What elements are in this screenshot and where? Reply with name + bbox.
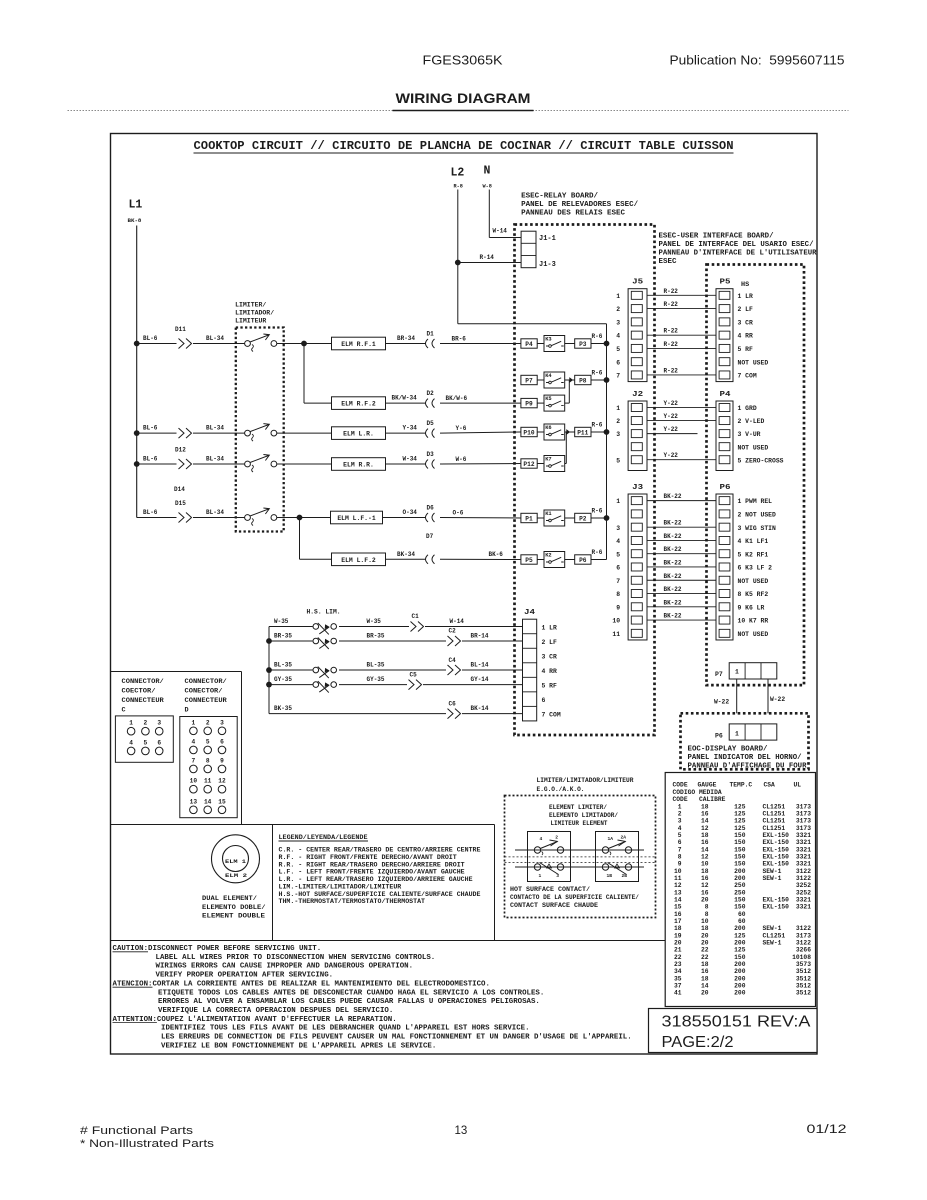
- svg-text:16: 16: [701, 889, 709, 896]
- svg-text:3173: 3173: [796, 825, 811, 832]
- svg-text:ELM R.R.: ELM R.R.: [343, 462, 374, 469]
- relay K7: [537, 463, 544, 465]
- svg-text:1B: 1B: [607, 873, 613, 879]
- svg-text:12: 12: [701, 825, 709, 832]
- svg-text:ATENCION:CORTAR LA CORRIENTE A: ATENCION:CORTAR LA CORRIENTE ANTES DE RE…: [113, 980, 490, 988]
- svg-text:LES ERREURS DE CONNECTION DE F: LES ERREURS DE CONNECTION DE FILS PEUVEN…: [161, 1034, 632, 1042]
- connector P8: [565, 379, 575, 381]
- svg-text:10 K7 RR: 10 K7 RR: [738, 618, 769, 625]
- svg-text:5 RF: 5 RF: [542, 682, 558, 689]
- svg-text:CL1251: CL1251: [763, 803, 786, 810]
- part number box: [649, 1009, 818, 1053]
- svg-text:BK-22: BK-22: [664, 493, 682, 500]
- svg-text:1A: 1A: [608, 836, 614, 842]
- svg-text:200: 200: [734, 940, 746, 947]
- svg-text:GY-14: GY-14: [471, 676, 489, 683]
- svg-text:318550151 REV:A: 318550151 REV:A: [662, 1014, 812, 1031]
- svg-text:3: 3: [616, 319, 620, 326]
- svg-text:150: 150: [734, 897, 746, 904]
- svg-text:6: 6: [542, 697, 546, 704]
- svg-text:2 NOT USED: 2 NOT USED: [738, 512, 777, 519]
- svg-text:9 K6 LR: 9 K6 LR: [738, 604, 765, 611]
- connector P6 EOC: [729, 724, 777, 740]
- svg-text:R.F. - RIGHT FRONT/FRENTE DERE: R.F. - RIGHT FRONT/FRENTE DERECHO/AVANT …: [279, 854, 457, 861]
- svg-text:BK-22: BK-22: [664, 613, 682, 620]
- svg-text:18: 18: [701, 961, 709, 968]
- svg-text:8 K5 RF2: 8 K5 RF2: [738, 591, 769, 598]
- relay K3: [537, 343, 544, 345]
- svg-text:ELEMENT LIMITER/: ELEMENT LIMITER/: [549, 804, 607, 811]
- svg-text:Y-22: Y-22: [664, 413, 679, 420]
- svg-text:P10: P10: [523, 429, 534, 436]
- svg-text:FGES3065K: FGES3065K: [423, 54, 504, 68]
- svg-text:4 RR: 4 RR: [738, 333, 754, 340]
- svg-text:3512: 3512: [796, 975, 811, 982]
- wire Y-22 J2-3 stub: [647, 433, 698, 435]
- svg-text:J5: J5: [632, 279, 643, 287]
- svg-text:41: 41: [674, 990, 682, 997]
- element limiter box outline: [505, 796, 656, 918]
- svg-text:Y-22: Y-22: [664, 426, 679, 433]
- svg-text:34: 34: [674, 968, 682, 975]
- svg-text:5: 5: [144, 739, 148, 746]
- svg-text:6: 6: [220, 738, 224, 745]
- svg-text:BK-22: BK-22: [664, 599, 682, 606]
- svg-text:21: 21: [674, 947, 682, 954]
- svg-text:3321: 3321: [796, 897, 811, 904]
- svg-text:3321: 3321: [796, 846, 811, 853]
- wire R-22 J5-2 to P5: [647, 308, 716, 310]
- svg-text:D12: D12: [175, 447, 186, 454]
- dual element symbol: [212, 835, 260, 883]
- svg-text:K5: K5: [545, 396, 551, 402]
- svg-text:1: 1: [616, 498, 620, 505]
- svg-text:150: 150: [734, 954, 746, 961]
- svg-text:7 COM: 7 COM: [542, 711, 561, 718]
- svg-text:BK-22: BK-22: [664, 586, 682, 593]
- svg-text:200: 200: [734, 990, 746, 997]
- connector J3: [628, 494, 647, 640]
- svg-text:18: 18: [674, 925, 682, 932]
- svg-text:5: 5: [616, 346, 620, 353]
- svg-text:35: 35: [674, 975, 682, 982]
- svg-text:ELEMENT DOUBLE: ELEMENT DOUBLE: [202, 913, 265, 921]
- svg-text:EXL-150: EXL-150: [763, 839, 790, 846]
- svg-text:C1: C1: [412, 613, 420, 620]
- svg-text:P6: P6: [715, 733, 723, 740]
- svg-text:# Functional Parts: # Functional Parts: [80, 1125, 194, 1137]
- svg-text:6 K3 LF 2: 6 K3 LF 2: [738, 565, 773, 572]
- svg-text:250: 250: [734, 882, 746, 889]
- svg-text:L1: L1: [129, 199, 143, 212]
- svg-text:D7: D7: [426, 533, 434, 540]
- svg-text:R-6: R-6: [592, 369, 603, 376]
- wire limiter contacts bottom: [515, 866, 644, 868]
- svg-text:3 V-UR: 3 V-UR: [738, 431, 761, 438]
- limiter mechanical link dashed: [505, 856, 656, 858]
- svg-text:BK-8: BK-8: [128, 217, 142, 224]
- svg-text:CONNECTOR/: CONNECTOR/: [122, 678, 164, 686]
- svg-text:14: 14: [204, 798, 212, 805]
- svg-text:2: 2: [616, 306, 620, 313]
- svg-text:2 V-LED: 2 V-LED: [738, 418, 765, 425]
- svg-text:200: 200: [734, 868, 746, 875]
- svg-text:60: 60: [738, 911, 746, 918]
- wire BK-22 J3-1 to P6: [647, 500, 716, 502]
- svg-text:BR-35: BR-35: [367, 632, 385, 639]
- svg-text:60: 60: [738, 918, 746, 925]
- svg-text:5: 5: [616, 551, 620, 558]
- svg-text:20: 20: [701, 990, 709, 997]
- svg-text:EOC-DISPLAY BOARD/: EOC-DISPLAY BOARD/: [688, 746, 768, 754]
- svg-text:3512: 3512: [796, 983, 811, 990]
- svg-text:R-22: R-22: [664, 341, 679, 348]
- wire K5 output jog to P8: [565, 402, 570, 404]
- svg-text:K7: K7: [545, 456, 551, 462]
- connector J5: [628, 289, 647, 382]
- svg-text:BL-34: BL-34: [206, 425, 224, 432]
- connector P4: [716, 401, 733, 471]
- svg-text:6: 6: [616, 359, 620, 366]
- svg-text:4: 4: [540, 836, 543, 842]
- svg-text:D5: D5: [427, 420, 435, 427]
- svg-text:C6: C6: [449, 700, 457, 707]
- svg-text:BR-35: BR-35: [274, 632, 292, 639]
- svg-text:C5: C5: [410, 671, 418, 678]
- svg-text:CONNECTEUR: CONNECTEUR: [122, 697, 165, 705]
- svg-text:1: 1: [616, 405, 620, 412]
- element ELM R.R.: [332, 458, 386, 471]
- wire ELM R.R. output: [277, 463, 332, 465]
- svg-text:C4: C4: [449, 657, 457, 664]
- svg-text:ESEC: ESEC: [659, 258, 677, 266]
- svg-text:14: 14: [701, 983, 709, 990]
- svg-text:LABEL ALL WIRES PRIOR TO DISCO: LABEL ALL WIRES PRIOR TO DISCONNECTION W…: [156, 954, 436, 962]
- svg-text:D6: D6: [427, 504, 435, 511]
- svg-text:P8: P8: [579, 377, 587, 384]
- svg-text:IDENTIFIEZ TOUS LES FILS AVANT: IDENTIFIEZ TOUS LES FILS AVANT DE LES DE…: [161, 1025, 530, 1033]
- svg-text:11: 11: [612, 631, 620, 638]
- svg-text:LIMITEUR: LIMITEUR: [235, 318, 266, 325]
- svg-text:3 CR: 3 CR: [738, 319, 754, 326]
- svg-text:THM.-THERMOSTAT/TERMOSTATO/THE: THM.-THERMOSTAT/TERMOSTATO/THERMOSTAT: [279, 898, 426, 905]
- svg-text:5: 5: [616, 457, 620, 464]
- svg-text:PANNEAU D'AFFICHAGE DU FOUR: PANNEAU D'AFFICHAGE DU FOUR: [688, 763, 808, 771]
- svg-text:ELEMENTO DOBLE/: ELEMENTO DOBLE/: [202, 904, 266, 912]
- svg-text:4: 4: [192, 738, 196, 745]
- svg-text:P6: P6: [720, 484, 731, 492]
- svg-text:3321: 3321: [796, 853, 811, 860]
- wire BK-22 J3-3 to P6: [647, 526, 716, 528]
- svg-text:2: 2: [678, 810, 682, 817]
- svg-text:R-22: R-22: [664, 301, 679, 308]
- svg-text:3512: 3512: [796, 990, 811, 997]
- svg-text:5 RF: 5 RF: [738, 346, 754, 353]
- svg-text:J4: J4: [524, 609, 535, 617]
- EOC display board outline: [681, 713, 809, 769]
- svg-text:CONNECTEUR: CONNECTEUR: [185, 697, 228, 705]
- limiter contact block left: [528, 832, 571, 882]
- svg-text:R-6: R-6: [592, 507, 603, 514]
- svg-text:P2: P2: [579, 515, 587, 522]
- svg-text:K1: K1: [545, 511, 551, 517]
- connector P7: [521, 375, 537, 384]
- wire W-22 right: [767, 679, 769, 724]
- svg-text:BL-35: BL-35: [367, 661, 385, 668]
- svg-text:200: 200: [734, 975, 746, 982]
- svg-text:16: 16: [701, 810, 709, 817]
- wire L1 bus: [136, 226, 138, 518]
- svg-text:C: C: [122, 707, 126, 715]
- svg-text:3252: 3252: [796, 882, 811, 889]
- svg-text:EXL-150: EXL-150: [763, 853, 790, 860]
- wire P11 to R-6 bus: [591, 431, 607, 433]
- svg-text:2 LF: 2 LF: [542, 639, 558, 646]
- svg-text:150: 150: [734, 853, 746, 860]
- wire BK-22 J3-10 to P6: [647, 619, 716, 621]
- svg-text:1 LR: 1 LR: [738, 293, 754, 300]
- svg-text:1: 1: [678, 803, 682, 810]
- connector P9: [521, 398, 537, 407]
- wire ELM L.R. output: [277, 432, 332, 434]
- svg-text:ETIQUETE TODOS LOS CABLES ANTE: ETIQUETE TODOS LOS CABLES ANTES DE DESCO…: [158, 989, 544, 997]
- element ELM L.F.2: [332, 553, 386, 566]
- svg-text:18: 18: [701, 925, 709, 932]
- svg-text:P7: P7: [525, 377, 533, 384]
- relay K5: [537, 402, 544, 404]
- svg-text:3122: 3122: [796, 868, 811, 875]
- svg-text:SEW-1: SEW-1: [763, 868, 782, 875]
- svg-text:HOT SURFACE CONTACT/: HOT SURFACE CONTACT/: [510, 886, 590, 893]
- svg-text:11: 11: [204, 778, 212, 785]
- wire BK-22 J3-7 to P6: [647, 579, 716, 581]
- junction HS bus tap: [266, 638, 272, 644]
- wire ELM R.F.1 output: [277, 343, 332, 345]
- svg-text:CODE CALIBRE: CODE CALIBRE: [673, 796, 726, 803]
- svg-text:9: 9: [616, 604, 620, 611]
- svg-text:ELM R.F.2: ELM R.F.2: [341, 401, 376, 408]
- svg-text:13: 13: [190, 798, 198, 805]
- svg-text:CL1251: CL1251: [763, 810, 786, 817]
- svg-text:ELEMENTO LIMITADOR/: ELEMENTO LIMITADOR/: [549, 812, 618, 819]
- svg-text:R-8: R-8: [454, 184, 463, 190]
- svg-text:VERIFIQUE LA CORRECTA OPERACIO: VERIFIQUE LA CORRECTA OPERACION DESPUES …: [158, 1007, 393, 1015]
- svg-text:3321: 3321: [796, 904, 811, 911]
- svg-text:J3: J3: [632, 484, 643, 492]
- svg-text:250: 250: [734, 889, 746, 896]
- svg-text:1: 1: [616, 293, 620, 300]
- svg-text:5: 5: [206, 738, 210, 745]
- ESEC relay board outline: [515, 225, 655, 736]
- junction L1 tap row 4: [134, 461, 140, 467]
- svg-text:4 K1 LF1: 4 K1 LF1: [738, 538, 769, 545]
- svg-text:37: 37: [674, 983, 682, 990]
- svg-text:ELM 1: ELM 1: [225, 858, 247, 865]
- wire ELM L.F.-1 output: [277, 517, 331, 519]
- relay K2: [537, 559, 544, 561]
- svg-text:18: 18: [701, 803, 709, 810]
- wire R-22 J5-5 to P5: [647, 347, 716, 349]
- svg-text:VERIFY PROPER OPERATION AFTER: VERIFY PROPER OPERATION AFTER SERVICING.: [156, 972, 334, 980]
- svg-text:D2: D2: [427, 390, 435, 397]
- svg-text:8: 8: [705, 904, 709, 911]
- element ELM R.F.2: [332, 397, 386, 410]
- svg-text:9: 9: [220, 757, 224, 764]
- svg-text:13: 13: [674, 889, 682, 896]
- svg-text:1: 1: [192, 719, 196, 726]
- svg-text:14: 14: [674, 897, 682, 904]
- svg-text:COOKTOP CIRCUIT // CIRCUITO DE: COOKTOP CIRCUIT // CIRCUITO DE PLANCHA D…: [194, 140, 734, 153]
- svg-text:VERIFIEZ LE BON FONCTIONNEMENT: VERIFIEZ LE BON FONCTIONNEMENT DE L'APPA…: [161, 1042, 436, 1050]
- connector P10: [521, 427, 537, 436]
- element ELM L.R.: [332, 427, 386, 440]
- svg-text:8: 8: [678, 853, 682, 860]
- wire Y-22 J2-5 to P4: [647, 459, 716, 461]
- svg-text:Y-34: Y-34: [403, 425, 418, 432]
- svg-text:P1: P1: [525, 515, 533, 522]
- wire R-22 J5-7 to P5: [647, 374, 716, 376]
- svg-text:3266: 3266: [796, 947, 811, 954]
- connector P6: [565, 559, 575, 561]
- svg-text:PAGE:2/2: PAGE:2/2: [662, 1034, 734, 1051]
- svg-text:3 CR: 3 CR: [542, 653, 558, 660]
- svg-text:16: 16: [701, 875, 709, 882]
- element ELM L.F.-1: [331, 511, 383, 524]
- limiter switch row 1: [245, 341, 251, 347]
- wire branch to ELM R.F.2: [303, 344, 305, 404]
- svg-text:3173: 3173: [796, 932, 811, 939]
- header rule: [68, 110, 849, 112]
- svg-text:CODIGO MEDIDA: CODIGO MEDIDA: [673, 789, 722, 796]
- svg-text:H.S.-HOT SURFACE/SUPERFICIE CA: H.S.-HOT SURFACE/SUPERFICIE CALIENTE/SUR…: [279, 891, 481, 898]
- svg-text:3173: 3173: [796, 803, 811, 810]
- svg-text:P11: P11: [577, 429, 588, 436]
- svg-text:13: 13: [455, 1125, 468, 1137]
- svg-text:L.F. - LEFT FRONT/FRENTE IZQUI: L.F. - LEFT FRONT/FRENTE IZQUIERDO/AVANT…: [279, 869, 465, 876]
- wire R-22 J5-1 to P5: [647, 294, 716, 296]
- svg-text:W-14: W-14: [450, 618, 465, 625]
- svg-text:P4: P4: [525, 341, 533, 348]
- svg-text:BK-6: BK-6: [489, 551, 504, 558]
- connector P11: [565, 431, 575, 433]
- section line legend divider: [272, 825, 274, 941]
- svg-text:W-22: W-22: [770, 696, 785, 703]
- svg-text:PANEL DE INTERFACE DEL USARIO: PANEL DE INTERFACE DEL USARIO ESEC/: [659, 241, 814, 249]
- svg-text:15: 15: [218, 798, 226, 805]
- section line caution top: [111, 940, 666, 942]
- svg-text:1 PWM REL: 1 PWM REL: [738, 498, 773, 505]
- svg-text:SEW-1: SEW-1: [763, 940, 782, 947]
- svg-text:ESEC-USER INTERFACE BOARD/: ESEC-USER INTERFACE BOARD/: [659, 233, 774, 241]
- svg-text:6: 6: [157, 739, 161, 746]
- svg-text:BL-34: BL-34: [206, 335, 224, 342]
- svg-text:3: 3: [157, 720, 161, 727]
- svg-text:EXL-150: EXL-150: [763, 861, 790, 868]
- ESEC user interface board outline: [707, 265, 805, 686]
- svg-text:12: 12: [701, 882, 709, 889]
- svg-text:R.R. - RIGHT REAR/TRASERO DERE: R.R. - RIGHT REAR/TRASERO DERECHO/ARRIER…: [279, 861, 465, 868]
- junction L1 tap row 1: [134, 341, 140, 347]
- wire Y-22 J2-2 to P4: [647, 420, 716, 422]
- connector J2: [628, 401, 647, 471]
- svg-text:11: 11: [674, 875, 682, 882]
- svg-text:WIRINGS ERRORS CAN CAUSE IMPRO: WIRINGS ERRORS CAN CAUSE IMPROPER AND DA…: [156, 963, 414, 971]
- svg-text:23: 23: [674, 961, 682, 968]
- svg-text:SEW-1: SEW-1: [763, 875, 782, 882]
- svg-text:K4: K4: [545, 373, 552, 379]
- svg-text:R-14: R-14: [480, 254, 495, 261]
- svg-text:3321: 3321: [796, 839, 811, 846]
- wire R-14 to J1-3: [458, 262, 521, 264]
- wire P2 to R-6 bus: [591, 517, 607, 519]
- wire BK-22 J3-5 to P6: [647, 553, 716, 555]
- wire P8 to R-6 bus: [591, 379, 607, 381]
- junction R-14 node: [455, 260, 461, 266]
- svg-text:R-22: R-22: [664, 328, 679, 335]
- svg-text:BK-35: BK-35: [274, 705, 292, 712]
- svg-text:14: 14: [701, 818, 709, 825]
- wire L2 drop: [457, 190, 459, 324]
- wire limiter contacts top: [515, 849, 644, 851]
- svg-text:* Non-Illustrated Parts: * Non-Illustrated Parts: [80, 1138, 215, 1150]
- svg-text:P4: P4: [720, 391, 731, 399]
- svg-text:D15: D15: [175, 500, 186, 507]
- svg-text:H.S. LIM.: H.S. LIM.: [307, 609, 341, 616]
- svg-text:D: D: [185, 707, 189, 715]
- connector D: [180, 717, 237, 818]
- svg-text:150: 150: [734, 904, 746, 911]
- svg-text:5 ZERO-CROSS: 5 ZERO-CROSS: [738, 457, 784, 464]
- svg-text:UL: UL: [794, 782, 802, 789]
- svg-text:7 COM: 7 COM: [738, 373, 757, 380]
- svg-text:7: 7: [616, 578, 620, 585]
- svg-text:LIM.-LIMITER/LIMITADOR/LIMITEU: LIM.-LIMITER/LIMITADOR/LIMITEUR: [279, 883, 402, 890]
- wire N drop to J1-1: [488, 190, 490, 238]
- svg-text:8: 8: [206, 757, 210, 764]
- svg-text:W-35: W-35: [274, 618, 289, 625]
- svg-text:6: 6: [616, 565, 620, 572]
- svg-text:1 GRD: 1 GRD: [738, 405, 757, 412]
- svg-text:3512: 3512: [796, 968, 811, 975]
- svg-text:1 LR: 1 LR: [542, 624, 558, 631]
- svg-text:125: 125: [734, 810, 746, 817]
- wire BL-6 feed ELM R.R.: [137, 463, 177, 465]
- wire gauge table box: [665, 773, 815, 1007]
- svg-text:Y-22: Y-22: [664, 452, 679, 459]
- svg-text:ELM R.F.1: ELM R.F.1: [341, 341, 376, 348]
- junction L1 tap row 3: [134, 430, 140, 436]
- svg-text:W-6: W-6: [456, 456, 467, 463]
- svg-text:20: 20: [701, 932, 709, 939]
- svg-text:NOT USED: NOT USED: [738, 444, 769, 451]
- svg-text:BL-14: BL-14: [471, 661, 489, 668]
- svg-text:8: 8: [705, 911, 709, 918]
- connector J4: [523, 619, 537, 721]
- svg-text:150: 150: [734, 839, 746, 846]
- svg-text:P5: P5: [720, 279, 731, 287]
- svg-text:D3: D3: [427, 451, 435, 458]
- svg-text:20: 20: [701, 940, 709, 947]
- svg-text:BR-34: BR-34: [397, 335, 415, 342]
- svg-text:3573: 3573: [796, 961, 811, 968]
- svg-text:LIMITER/: LIMITER/: [235, 302, 266, 309]
- svg-text:7: 7: [616, 373, 620, 380]
- svg-text:EXL-150: EXL-150: [763, 897, 790, 904]
- svg-text:LIMITEUR ELEMENT: LIMITEUR ELEMENT: [551, 820, 608, 827]
- svg-text:P5: P5: [525, 557, 533, 564]
- svg-text:CONTACTO DE LA SUPERFICIE CALI: CONTACTO DE LA SUPERFICIE CALIENTE/: [510, 894, 639, 901]
- svg-text:BR-6: BR-6: [452, 335, 467, 342]
